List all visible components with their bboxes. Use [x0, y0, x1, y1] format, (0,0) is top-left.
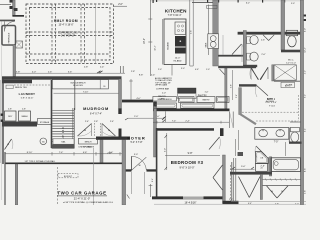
pantry-hall wall	[225, 68, 227, 108]
svg-text:2'-4": 2'-4"	[85, 121, 89, 123]
family room coffered ceiling inner dashed rect	[30, 8, 111, 61]
wall return line top-left	[13, 8, 18, 10]
vanity sink right	[276, 130, 285, 137]
toilet compartment wall	[288, 128, 290, 142]
bedroom3 top wall	[156, 128, 214, 131]
hall door swings	[251, 68, 259, 79]
svg-text:WASH: WASH	[22, 115, 28, 118]
svg-text:W/ HOOKS: W/ HOOKS	[73, 85, 83, 87]
bottom dimension lines	[231, 201, 306, 203]
svg-text:2'-4": 2'-4"	[109, 152, 114, 154]
kitchen left dimension line	[150, 0, 152, 76]
svg-text:2'-8": 2'-8"	[84, 66, 89, 68]
svg-text:W/ CUBBIES: W/ CUBBIES	[83, 147, 95, 149]
mudroom lockers built-in	[52, 80, 108, 89]
kitchen top dimension ticks	[153, 0, 154, 3]
stair treads	[52, 110, 74, 112]
hall built-in box D	[217, 97, 230, 103]
kitchen hall door swing	[232, 44, 242, 55]
bench box	[79, 138, 98, 144]
mudroom-foyer wall upper	[119, 79, 122, 109]
kitchen island outline	[164, 19, 186, 65]
svg-text:2'-4": 2'-4"	[185, 120, 190, 122]
closet shelf line with hatch	[263, 179, 302, 181]
svg-text:ISLAND: ISLAND	[174, 60, 182, 63]
hall dimension line right	[285, 142, 287, 156]
mudroom door left	[78, 124, 92, 137]
family room center dimension line	[95, 4, 97, 64]
svg-text:24: 24	[281, 191, 283, 193]
svg-text:16: 16	[7, 144, 9, 146]
mudroom bottom wall	[96, 137, 130, 140]
svg-text:2'-4": 2'-4"	[151, 74, 156, 76]
svg-text:BOXOUT: BOXOUT	[64, 176, 73, 178]
closet double doors right	[267, 186, 278, 198]
svg-text:STORAGE: STORAGE	[40, 121, 50, 124]
hallway wall above foyer	[122, 100, 153, 103]
svg-text:18'-0": 18'-0"	[144, 38, 146, 44]
bedroom3 right dimension line	[238, 130, 240, 150]
svg-text:10'-0": 10'-0"	[175, 58, 181, 60]
closet shelf lines	[233, 158, 235, 201]
bath2 hall door swing	[256, 146, 266, 156]
bedroom3 closet bifold doors	[213, 165, 223, 178]
svg-text:12'-4": 12'-4"	[305, 47, 307, 53]
svg-text:32'-4": 32'-4"	[155, 45, 157, 51]
svg-text:BUILT-IN BENCH: BUILT-IN BENCH	[71, 82, 86, 84]
svg-text:7'-0": 7'-0"	[274, 141, 279, 143]
svg-text:w/ 5/8" TYPE X DRYWALL @ COMMO: w/ 5/8" TYPE X DRYWALL @ COMMON WALLS AN…	[63, 201, 113, 204]
svg-text:KITCHEN: KITCHEN	[165, 8, 187, 13]
upper cabinet box	[207, 5, 217, 8]
svg-text:LIN: LIN	[260, 157, 263, 159]
svg-text:8'-6": 8'-6"	[305, 168, 307, 172]
kitchen lower wall segment	[218, 55, 243, 57]
bath2 entry door swing	[257, 85, 269, 95]
svg-text:COFFEE BAR: COFFEE BAR	[156, 87, 170, 90]
svg-text:8'-10": 8'-10"	[27, 152, 33, 154]
linen cabinet lower box	[256, 163, 268, 171]
toilet room bottom wall	[281, 50, 302, 53]
kitchen right wall band	[213, 0, 218, 66]
hall built-in lower box E	[154, 103, 177, 108]
svg-text:1'-0": 1'-0"	[205, 91, 209, 93]
stair right rail	[72, 108, 74, 144]
svg-text:5'-8" X 10'-6": 5'-8" X 10'-6"	[21, 97, 34, 99]
svg-text:1'-0": 1'-0"	[206, 69, 210, 71]
foyer bottom wall right stub	[147, 169, 157, 171]
bath2 top wall	[239, 84, 257, 86]
svg-text:15'-4" X 18'-0": 15'-4" X 18'-0"	[58, 23, 73, 26]
svg-text:2'-8": 2'-8"	[8, 109, 12, 111]
svg-text:6'-0": 6'-0"	[305, 28, 307, 32]
bedroom3 closet wall	[223, 155, 226, 203]
svg-text:24: 24	[261, 168, 263, 170]
bath1 bottom wall	[243, 65, 257, 67]
right exterior wall	[300, 0, 303, 205]
foyer right wall cap	[153, 102, 156, 107]
svg-text:9'-0" X 10'-0": 9'-0" X 10'-0"	[180, 165, 195, 169]
bath1 lower door swings	[251, 67, 258, 80]
left exterior wall lower segment	[13, 45, 16, 77]
svg-text:COFFERED CLNG: COFFERED CLNG	[58, 33, 78, 35]
bath2 toilet	[291, 127, 300, 132]
svg-text:RAIL: RAIL	[61, 141, 65, 144]
hall dimension line vertical mid	[164, 111, 166, 122]
svg-text:ISLAND: ISLAND	[167, 42, 170, 50]
svg-text:21'-4" X 21'-0": 21'-4" X 21'-0"	[74, 196, 90, 200]
porch step lines	[131, 172, 133, 194]
svg-text:7'-4": 7'-4"	[172, 120, 177, 122]
fireplace bay	[2, 26, 16, 46]
garage left inner wall	[15, 164, 18, 205]
svg-text:2'-4": 2'-4"	[100, 66, 105, 68]
svg-text:3'-0": 3'-0"	[164, 148, 166, 152]
tub left dimension line	[268, 157, 270, 172]
svg-text:5'-10" X 9'-4": 5'-10" X 9'-4"	[265, 102, 277, 104]
left exterior wall	[2, 79, 4, 164]
svg-text:5/8" TYPE X DRYWALL THIS WALL: 5/8" TYPE X DRYWALL THIS WALL	[25, 160, 55, 163]
garage dimension line	[5, 153, 122, 155]
bath2 left wall	[239, 88, 242, 115]
svg-text:36: 36	[138, 165, 140, 167]
bath2 vanity	[255, 128, 289, 140]
mudroom door right	[102, 124, 116, 137]
hall wall corner piece	[238, 152, 244, 156]
door to garage	[5, 139, 12, 150]
cased opening dashed	[94, 123, 96, 136]
svg-text:7'-10": 7'-10"	[83, 91, 89, 93]
boxout dashed rect	[58, 174, 78, 178]
bath1 pocket door V	[263, 35, 269, 41]
svg-text:UPPER CABS: UPPER CABS	[155, 84, 168, 87]
svg-text:BEDROOM #3: BEDROOM #3	[171, 160, 204, 165]
mudroom-foyer wall cap	[118, 109, 121, 115]
foyer opening dimension line	[128, 117, 163, 119]
svg-text:9' CLG: 9' CLG	[269, 105, 275, 107]
svg-text:7'-8" X 32'-4": 7'-8" X 32'-4"	[168, 14, 182, 17]
svg-text:6'-2": 6'-2"	[246, 3, 250, 5]
svg-text:5'-8": 5'-8"	[231, 84, 233, 88]
door jamb line	[241, 44, 243, 62]
svg-text:6'-4" X 7'-4": 6'-4" X 7'-4"	[90, 114, 102, 116]
hall built-in box A with text	[153, 97, 177, 102]
svg-text:FOYER: FOYER	[127, 135, 145, 140]
svg-text:4'-6": 4'-6"	[195, 69, 199, 71]
wall jog at fireplace top	[13, 15, 25, 17]
svg-text:24: 24	[84, 130, 86, 132]
svg-text:30: 30	[108, 130, 110, 132]
svg-text:4'-0": 4'-0"	[136, 98, 141, 100]
top edge dimension line	[150, 0, 303, 2]
island dishwasher dark box	[175, 48, 186, 54]
svg-text:PANTRY: PANTRY	[198, 94, 208, 97]
toilet room wall band	[281, 0, 285, 50]
hall dimension line vertical right	[232, 70, 234, 100]
closet rod dashed line	[229, 165, 231, 201]
svg-text:3'-4": 3'-4"	[152, 178, 154, 182]
closet double doors left	[239, 177, 250, 198]
porch wall top-left	[0, 20, 15, 22]
vanity sink left	[259, 130, 268, 137]
svg-text:FMLY ROOM: FMLY ROOM	[54, 19, 78, 23]
closet wall right segment	[263, 185, 302, 187]
svg-text:2'-8": 2'-8"	[22, 109, 26, 111]
hall built-in box B	[179, 97, 194, 103]
garage top wall	[5, 162, 122, 164]
garage entry wall stub	[100, 140, 103, 164]
bedroom3 window	[183, 197, 204, 200]
window tick marks top-left	[10, 0, 13, 3]
left edge dimension line	[0, 20, 2, 200]
svg-text:W.I.C.: W.I.C.	[288, 60, 294, 62]
linen closet left wall	[272, 65, 274, 81]
pantry door swing	[220, 69, 226, 76]
closet wall horizontal	[230, 172, 272, 175]
bath1 toilet 1	[247, 37, 251, 44]
svg-text:30: 30	[103, 86, 105, 88]
porch door swing	[5, 22, 15, 32]
mudroom-foyer wall lower	[119, 129, 122, 137]
ceiling beam dashed pair vertical 1	[51, 4, 53, 64]
svg-text:2'-0": 2'-0"	[162, 93, 166, 95]
svg-text:2'-6": 2'-6"	[261, 40, 265, 42]
svg-text:BATH 2: BATH 2	[267, 98, 276, 101]
bedroom3 entry door swing	[209, 137, 220, 150]
svg-text:24: 24	[271, 191, 273, 193]
hall built-in lower box F	[181, 103, 214, 108]
front door swing	[131, 156, 133, 170]
toilet compartment bottom wall	[289, 142, 302, 144]
linen cabinet pentagon	[256, 152, 269, 164]
mudroom left wall	[74, 80, 76, 110]
garage center dimension line	[93, 148, 95, 205]
svg-text:BENCH: BENCH	[85, 141, 92, 143]
svg-text:2'-8": 2'-8"	[94, 121, 98, 123]
svg-text:BENCH TILE: BENCH TILE	[15, 87, 27, 89]
svg-text:MUDROOM: MUDROOM	[83, 106, 109, 111]
storage box	[38, 119, 52, 125]
toilet room toilet	[286, 30, 297, 35]
closet bottom wall	[223, 201, 239, 205]
fireplace hearth box	[16, 41, 23, 48]
svg-text:TWO CAR GARAGE: TWO CAR GARAGE	[57, 191, 106, 196]
laundry wall cabinet box	[6, 85, 13, 88]
svg-text:2'-0": 2'-0"	[134, 116, 138, 118]
svg-text:5'-4" X 7'-8": 5'-4" X 7'-8"	[131, 142, 143, 144]
left wall window ticks	[1, 114, 4, 116]
bath1 toilet 2	[247, 53, 251, 60]
kitchen sink box	[208, 34, 219, 49]
foyer bottom wall left stub	[122, 169, 132, 171]
svg-text:9'-2": 9'-2"	[305, 94, 307, 98]
left exterior wall upper segment	[13, 0, 16, 16]
mudroom dimension line	[54, 92, 122, 94]
svg-text:FIREPLACE: FIREPLACE	[8, 32, 11, 43]
bedroom3 bottom wall	[152, 196, 224, 199]
svg-text:4'-2": 4'-2"	[305, 70, 307, 74]
ceiling beam dashed row 2	[26, 53, 110, 55]
garage common wall hatched	[52, 144, 75, 148]
dimension 2'-0 top	[114, 5, 127, 7]
hall dimension line to closet	[231, 168, 255, 170]
corridor edge line	[222, 35, 224, 55]
foyer dimension line vertical	[130, 79, 132, 100]
kitchen island back counter line	[161, 19, 163, 65]
svg-text:2'-6": 2'-6"	[261, 54, 265, 56]
bath1 top wall	[238, 32, 301, 35]
porch dimension line right	[150, 184, 152, 197]
bedroom3 left wall	[156, 128, 158, 199]
island dimension tail	[171, 65, 173, 76]
svg-text:BUILT-IN BENCH: BUILT-IN BENCH	[158, 99, 173, 101]
svg-text:3'-4": 3'-4"	[236, 94, 238, 98]
kitchen top wall segment	[192, 2, 218, 4]
bathtub	[271, 158, 301, 172]
bath2 ceiling dashed lines	[242, 111, 298, 113]
coffee bar counter dark	[178, 88, 197, 93]
dimension line above laundry wall	[15, 72, 125, 74]
bath1 left wall band	[243, 31, 246, 67]
svg-text:3'-0": 3'-0"	[134, 154, 138, 156]
floor drain circle	[40, 138, 47, 145]
family room - laundry wall	[2, 76, 122, 79]
porch corner tick	[127, 195, 130, 199]
svg-text:5'-0": 5'-0"	[291, 3, 295, 5]
svg-text:2'-6": 2'-6"	[191, 30, 193, 34]
hall built-in box C	[197, 97, 215, 103]
pantry cabinet box	[178, 94, 197, 99]
bench dashed line	[14, 84, 50, 86]
toilet compartment top line	[290, 121, 301, 123]
attic box	[281, 82, 295, 87]
garage ceiling dashed line	[57, 167, 59, 205]
svg-text:2'-8": 2'-8"	[305, 190, 307, 194]
svg-text:5'-0" X 2'-0": 5'-0" X 2'-0"	[286, 62, 296, 64]
family room right dimension line	[148, 18, 152, 20]
island cooktop box	[175, 22, 186, 34]
ceiling beam dashed pair vertical 2	[80, 4, 82, 64]
kitchen counter along wall	[207, 5, 209, 56]
svg-text:7'-4": 7'-4"	[59, 152, 64, 154]
svg-text:LAUNDRY: LAUNDRY	[19, 92, 36, 96]
svg-text:UP 16R: UP 16R	[61, 127, 65, 140]
svg-text:2'-4": 2'-4"	[110, 121, 114, 123]
kitchen counter edge lines	[189, 0, 191, 66]
svg-text:2'-6": 2'-6"	[261, 165, 266, 167]
hallway south wall	[153, 109, 230, 112]
tub left wall band	[269, 157, 271, 176]
closet board line	[231, 162, 233, 201]
bedroom3 interior dimension	[165, 154, 220, 156]
svg-text:4'-6": 4'-6"	[83, 152, 88, 154]
svg-text:5'-0": 5'-0"	[241, 166, 246, 168]
garage left outer wall	[4, 152, 6, 205]
bath2 angled wall	[240, 114, 256, 124]
duct chase near bath2	[229, 112, 231, 129]
svg-text:GD: GD	[42, 141, 45, 143]
garage right wall	[122, 140, 126, 205]
svg-text:2'-0": 2'-0"	[229, 199, 233, 201]
hall dimension line	[153, 121, 229, 123]
laundry upper cabinets	[2, 80, 32, 84]
svg-text:2'-8": 2'-8"	[131, 71, 135, 73]
foyer right wall	[154, 102, 157, 157]
svg-text:PANTRY: PANTRY	[202, 98, 210, 101]
stair bottom rail box	[53, 139, 74, 144]
wall below linen	[274, 80, 300, 82]
island range dark box	[175, 36, 186, 47]
ceiling beam dashed row 1	[26, 31, 114, 33]
svg-text:5'-4": 5'-4"	[305, 128, 307, 132]
window ticks right wall	[304, 15, 306, 17]
laundry counter dark	[2, 122, 37, 127]
svg-text:SINK: SINK	[206, 42, 208, 47]
svg-text:9'-8": 9'-8"	[188, 152, 193, 155]
dryer box	[5, 111, 17, 121]
hall wall below kitchen	[218, 66, 256, 68]
svg-text:2'-0" POP-UP: 2'-0" POP-UP	[61, 36, 75, 38]
svg-text:9'-8": 9'-8"	[139, 74, 144, 76]
hall left line	[235, 139, 237, 156]
dimension line top-left	[0, 3, 11, 5]
svg-text:DRY: DRY	[8, 116, 13, 118]
washer box	[19, 111, 31, 121]
svg-text:2'-0": 2'-0"	[158, 69, 162, 71]
svg-text:3'-0": 3'-0"	[181, 68, 185, 70]
bedroom3 door stub	[220, 128, 224, 136]
linen closet X box	[274, 65, 296, 80]
family room coffered ceiling outer dashed rect	[26, 4, 114, 64]
svg-text:ATTIC: ATTIC	[285, 84, 291, 87]
stairs left wall	[51, 80, 53, 148]
closet divider wall	[260, 174, 262, 199]
svg-text:2'-0": 2'-0"	[118, 4, 123, 6]
